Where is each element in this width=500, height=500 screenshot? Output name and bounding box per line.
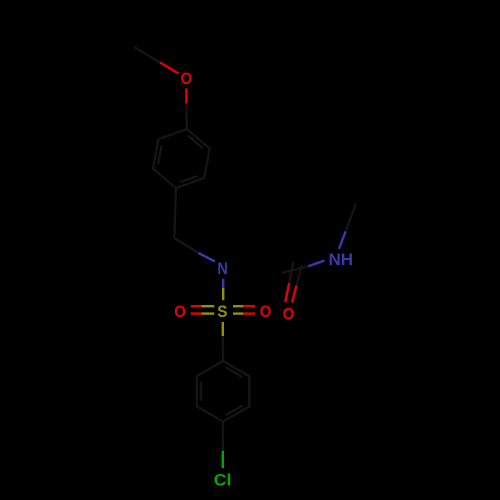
wire N-S bond nitrogen half [222, 279, 224, 288]
svg-text:N: N [217, 259, 227, 278]
wire NH-CH2 bond nitrogen half [308, 261, 324, 267]
wire methoxy CH3-O bond oxygen half [160, 63, 297, 314]
svg-text:O: O [283, 305, 295, 324]
svg-text:O: O [181, 69, 193, 88]
wire ring C4 to benzylic CH2 [174, 188, 176, 238]
wire right S=O double bond oxygen halves [243, 305, 255, 307]
wire O-C1 bond oxygen half [185, 88, 187, 103]
ring chlorophenyl benzene [197, 361, 250, 422]
svg-text:Cl: Cl [214, 470, 232, 489]
ring methoxyphenyl benzene [153, 129, 210, 188]
wire amide C=O double bond oxygen halves [285, 283, 289, 302]
svg-text:O: O [174, 302, 186, 321]
wire C-Cl bond carbon half [222, 422, 224, 451]
wire S-aryl bond carbon half [222, 336, 225, 361]
wire CH2-N bond carbon half [174, 238, 198, 253]
wire C-Cl bond chlorine half [222, 451, 224, 468]
wire left S=O double bond sulfur halves [202, 288, 244, 336]
wire amide C=O double bond carbon halves [289, 262, 293, 284]
wire NH-CH3 bond nitrogen half [339, 232, 346, 250]
svg-text:NH: NH [329, 250, 354, 269]
wire left S=O double bond oxygen halves [191, 305, 202, 307]
wire O-C1 bond carbon half [185, 104, 188, 130]
wire methoxy CH3-O bond carbon half [134, 47, 356, 451]
wire NH-CH3 bond carbon half [346, 204, 357, 232]
wire right S=O double bond sulfur halves [233, 305, 243, 307]
wire N-S bond sulfur half [222, 288, 224, 300]
svg-text:O: O [260, 302, 272, 321]
wire S-aryl bond sulfur half [222, 322, 224, 336]
wire CH2-N bond nitrogen half [199, 232, 346, 288]
svg-text:S: S [217, 302, 227, 321]
wire NH-CH2 bond carbon half [282, 266, 309, 273]
